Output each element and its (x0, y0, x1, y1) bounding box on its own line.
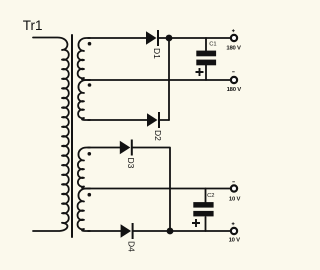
polarity dot winding C (88, 152, 92, 156)
terminal circle 1 (231, 35, 237, 41)
svg-text:180 V: 180 V (226, 46, 241, 52)
diode D3 triangle (120, 141, 131, 154)
capacitor C2 bottom plate (193, 211, 213, 217)
wire: C1 bottom branch (205, 65, 207, 80)
junction dot D3/D4 outputs (167, 228, 174, 235)
wire: C2 top branch (205, 189, 207, 203)
svg-text:D3: D3 (126, 158, 136, 169)
wire: D1 cathode to +180V terminal (159, 37, 231, 39)
svg-text:D4: D4 (127, 241, 137, 252)
C1 plus sign (196, 68, 204, 76)
terminal circle 3 (231, 185, 237, 191)
terminal 4 plus mark (232, 222, 235, 225)
diode D1 cathode bar (157, 30, 159, 46)
terminal 3 minus mark (232, 181, 235, 183)
wire: winding C top to D3 (88, 147, 120, 149)
capacitor C1 bottom plate (196, 60, 216, 66)
polarity dot winding A (88, 42, 92, 46)
terminal circle 4 (231, 228, 237, 234)
wire: D4 cathode to junction to +10V terminal (134, 230, 231, 232)
junction dot D1/D2 outputs (166, 35, 173, 42)
svg-text:C1: C1 (209, 41, 216, 47)
capacitor C1 top plate (196, 51, 216, 57)
wire: center tap (C/D) to 10V minus terminal (88, 188, 231, 190)
wire: C1 top branch (205, 38, 207, 51)
svg-text:C2: C2 (207, 193, 214, 199)
secondary winding C (top 10V) (78, 148, 90, 189)
polarity dot winding D (88, 193, 92, 197)
secondary winding A (top 180V) (78, 38, 90, 80)
svg-text:180 V: 180 V (227, 87, 242, 93)
diode D3 cathode bar (131, 140, 133, 156)
wire: D1/D2 junction vertical (168, 38, 170, 120)
secondary winding B (78, 80, 90, 120)
terminal circle 2 (231, 77, 237, 83)
diode D2 triangle (147, 113, 158, 126)
svg-text:10 V: 10 V (229, 197, 241, 203)
svg-text:10 V: 10 V (229, 238, 241, 244)
C2 plus sign (192, 219, 200, 227)
terminal 2 minus mark (232, 71, 235, 73)
diode D4 cathode bar (132, 223, 134, 239)
diode D2 cathode bar (158, 112, 160, 128)
wire: winding D bottom to D4 (88, 230, 121, 232)
wire: winding B bottom to D2 (88, 119, 147, 121)
terminal 1 plus mark (232, 29, 235, 32)
svg-text:D2: D2 (153, 130, 163, 141)
diode D4 triangle (121, 224, 132, 237)
polarity dot winding B (88, 83, 92, 87)
svg-text:Tr1: Tr1 (23, 18, 43, 33)
secondary winding D (78, 189, 90, 232)
transformer Tr1 primary winding (33, 38, 69, 232)
capacitor C2 top plate (193, 202, 213, 208)
wire: center tap (A/B) to 180V return terminal (88, 79, 231, 81)
wire: winding A top to D1 (88, 37, 146, 39)
wire: D2 cathode to junction corner (160, 119, 169, 121)
wire: C2 bottom branch (205, 217, 207, 231)
diode D1 triangle (146, 31, 157, 44)
svg-text:D1: D1 (152, 48, 162, 59)
wire: D3 cathode right then down to D4 junction (133, 148, 171, 232)
transformer core (71, 35, 73, 237)
